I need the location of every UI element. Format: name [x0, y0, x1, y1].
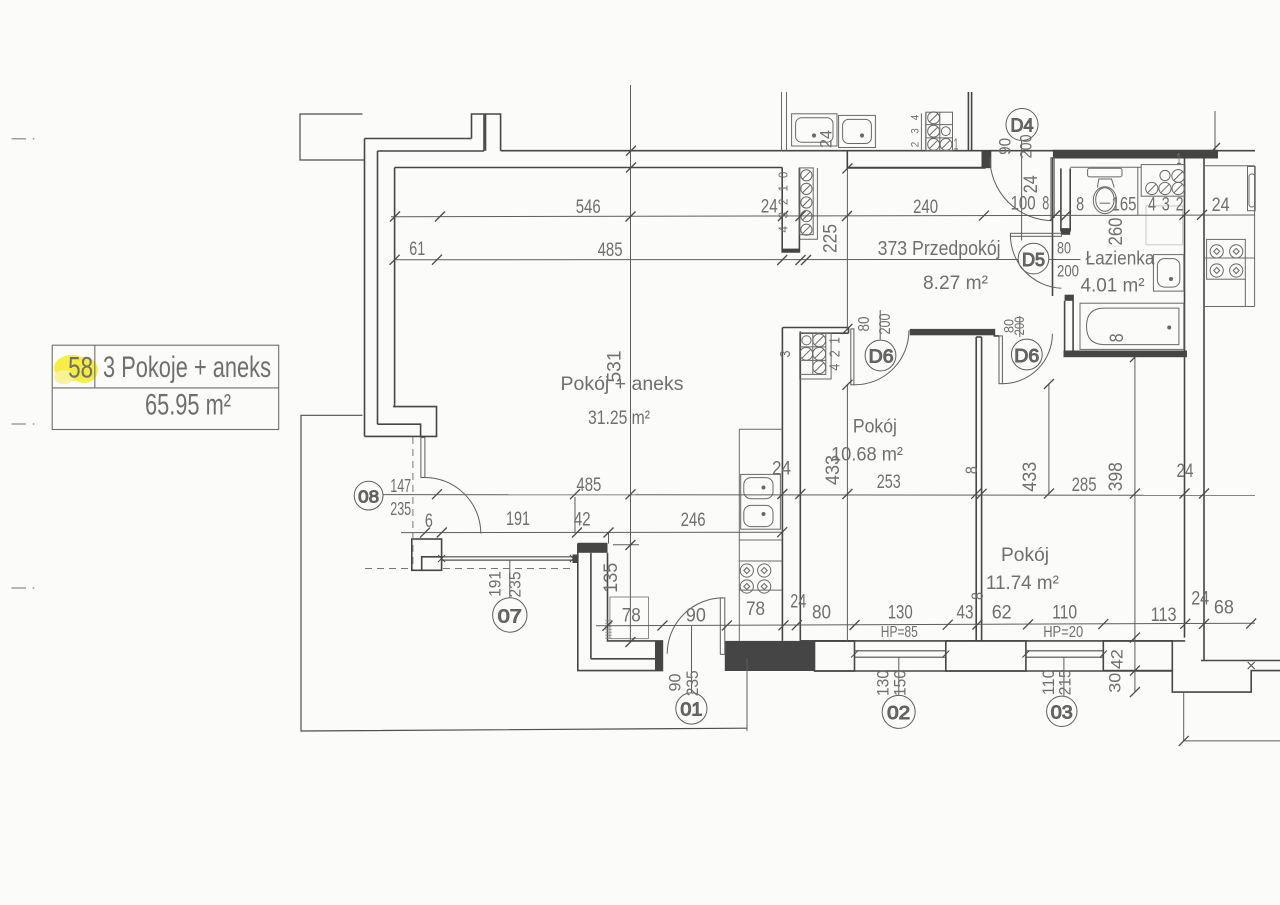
- svg-text:3: 3: [777, 351, 794, 358]
- svg-text:Pokój: Pokój: [1001, 544, 1049, 566]
- svg-text:2: 2: [827, 350, 844, 357]
- svg-text:Łazienka: Łazienka: [1086, 248, 1155, 270]
- svg-text:191: 191: [506, 509, 530, 530]
- svg-text:1: 1: [776, 185, 791, 192]
- svg-text:8: 8: [962, 466, 981, 474]
- svg-text:110: 110: [1052, 603, 1077, 624]
- svg-text:31.25 m²: 31.25 m²: [588, 407, 650, 429]
- svg-text:24: 24: [1021, 175, 1042, 193]
- svg-text:485: 485: [598, 240, 623, 261]
- svg-text:130: 130: [888, 603, 913, 624]
- svg-text:01: 01: [680, 700, 702, 720]
- svg-text:200: 200: [1011, 316, 1027, 335]
- svg-text:235: 235: [683, 670, 702, 696]
- svg-text:11.74 m²: 11.74 m²: [986, 572, 1059, 594]
- svg-text:90: 90: [686, 606, 706, 627]
- svg-text:191: 191: [486, 571, 505, 597]
- svg-text:135: 135: [601, 563, 622, 593]
- svg-text:100: 100: [1011, 194, 1036, 215]
- svg-text:531: 531: [604, 351, 625, 383]
- svg-text:200: 200: [1017, 134, 1036, 158]
- svg-text:3: 3: [909, 128, 921, 134]
- svg-text:200: 200: [877, 313, 894, 334]
- svg-text:8: 8: [1042, 194, 1049, 215]
- svg-text:90: 90: [995, 138, 1014, 155]
- svg-text:HP=20: HP=20: [1043, 624, 1083, 641]
- svg-text:3 Pokoje + aneks: 3 Pokoje + aneks: [103, 351, 271, 384]
- svg-text:485: 485: [576, 475, 601, 496]
- svg-text:235: 235: [390, 499, 411, 519]
- svg-text:D5: D5: [1022, 250, 1045, 270]
- svg-text:2: 2: [776, 199, 791, 206]
- svg-text:80: 80: [1057, 239, 1071, 258]
- svg-text:3: 3: [1162, 195, 1170, 216]
- svg-text:165: 165: [1112, 195, 1137, 216]
- svg-text:61: 61: [409, 239, 425, 260]
- svg-text:6: 6: [425, 511, 433, 532]
- svg-text:42: 42: [1108, 649, 1127, 669]
- svg-text:90: 90: [665, 674, 684, 692]
- svg-text:78: 78: [746, 599, 765, 620]
- svg-text:1: 1: [1176, 151, 1181, 168]
- svg-text:200: 200: [1057, 262, 1079, 281]
- svg-text:8: 8: [1076, 195, 1084, 216]
- svg-text:4: 4: [827, 364, 844, 371]
- svg-text:253: 253: [877, 472, 901, 493]
- svg-text:147: 147: [390, 476, 411, 496]
- svg-text:246: 246: [681, 510, 706, 531]
- svg-text:24: 24: [1191, 589, 1209, 610]
- svg-text:24: 24: [1177, 461, 1194, 482]
- svg-text:78: 78: [622, 606, 641, 627]
- svg-text:0: 0: [776, 172, 791, 179]
- svg-text:07: 07: [498, 606, 522, 627]
- svg-text:30: 30: [1106, 673, 1125, 693]
- svg-text:24: 24: [790, 592, 806, 613]
- svg-text:4: 4: [776, 226, 791, 233]
- svg-text:62: 62: [992, 602, 1012, 623]
- svg-text:433: 433: [823, 455, 844, 485]
- svg-text:80: 80: [856, 316, 873, 331]
- svg-text:1: 1: [954, 137, 959, 154]
- svg-text:2: 2: [909, 142, 921, 148]
- svg-text:4.01 m²: 4.01 m²: [1081, 275, 1145, 297]
- svg-text:68: 68: [1214, 598, 1234, 619]
- svg-text:215: 215: [1055, 669, 1074, 695]
- svg-text:43: 43: [957, 603, 974, 624]
- svg-text:58: 58: [68, 352, 93, 385]
- svg-text:4: 4: [909, 115, 921, 121]
- svg-text:42: 42: [574, 510, 591, 531]
- svg-text:8: 8: [1107, 333, 1128, 342]
- svg-text:373 Przedpokój: 373 Przedpokój: [878, 238, 1001, 260]
- svg-text:08: 08: [358, 486, 379, 506]
- svg-text:D6: D6: [1014, 345, 1039, 366]
- svg-text:D4: D4: [1011, 116, 1034, 136]
- svg-text:4: 4: [1148, 195, 1156, 216]
- svg-text:260: 260: [1106, 218, 1127, 246]
- svg-text:1: 1: [827, 337, 844, 344]
- svg-text:80: 80: [812, 603, 831, 624]
- svg-text:3: 3: [776, 212, 791, 219]
- svg-text:24: 24: [772, 459, 791, 480]
- svg-text:24: 24: [1212, 195, 1230, 216]
- svg-text:HP=85: HP=85: [881, 624, 918, 641]
- svg-text:Pokój: Pokój: [853, 416, 897, 438]
- svg-text:240: 240: [913, 197, 938, 218]
- svg-text:113: 113: [1151, 605, 1177, 626]
- svg-text:2: 2: [1176, 195, 1184, 216]
- svg-text:546: 546: [576, 197, 601, 218]
- svg-text:150: 150: [891, 670, 910, 696]
- svg-text:433: 433: [1020, 462, 1041, 492]
- svg-text:225: 225: [821, 224, 842, 253]
- svg-text:285: 285: [1072, 475, 1097, 496]
- svg-text:8: 8: [968, 592, 987, 600]
- svg-text:D6: D6: [869, 346, 894, 367]
- svg-text:03: 03: [1051, 703, 1073, 723]
- svg-text:02: 02: [887, 703, 910, 723]
- svg-text:235: 235: [506, 572, 525, 598]
- svg-text:8.27 m²: 8.27 m²: [923, 272, 988, 294]
- svg-text:65.95 m²: 65.95 m²: [145, 389, 231, 422]
- svg-text:24: 24: [817, 130, 836, 148]
- svg-text:398: 398: [1106, 462, 1127, 491]
- svg-text:130: 130: [874, 670, 893, 696]
